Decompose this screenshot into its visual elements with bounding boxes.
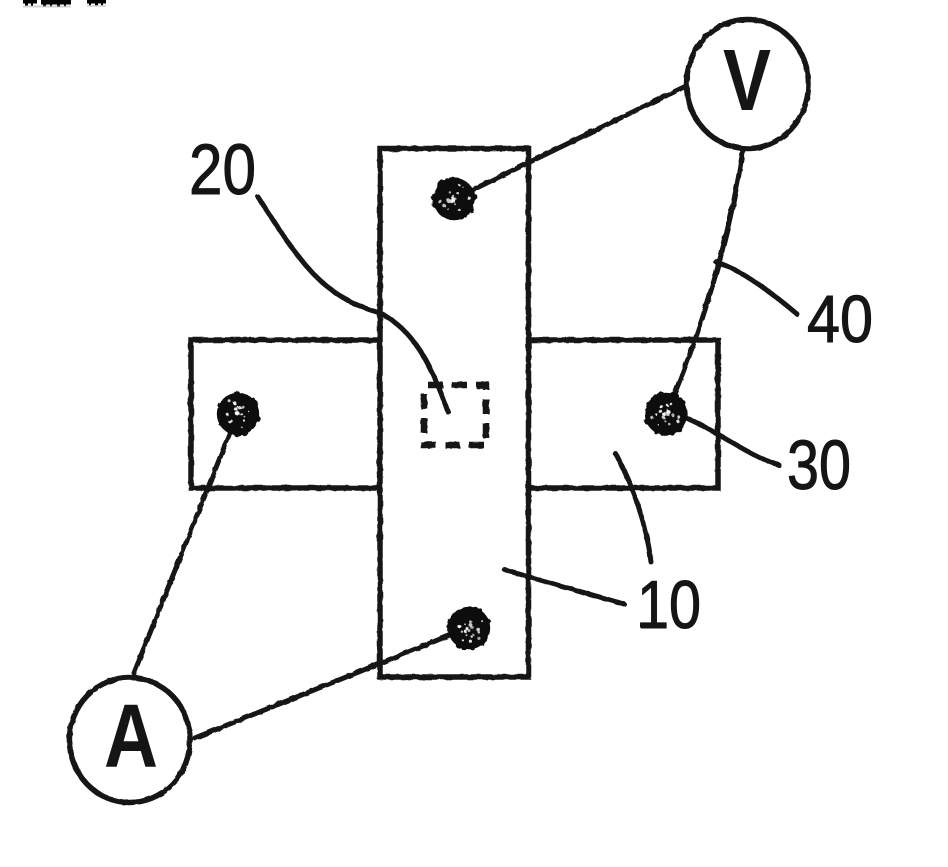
svg-text:40: 40 [807,282,873,357]
bottom contact dot [446,607,490,651]
left contact dot [217,391,261,438]
ammeter A circle [69,678,190,803]
svg-text:30: 30 [787,426,851,504]
svg-text:V: V [723,32,771,129]
top contact dot [431,178,477,220]
svg-text:10: 10 [637,567,701,643]
wire: voltmeter V to right contact 30 [667,150,743,412]
wire: ammeter A to left contact [134,420,235,673]
svg-text:A: A [104,687,158,787]
leader line for label 40 [716,262,797,314]
leader line (curved) for label 10 pointing to horizontal bar [616,454,651,562]
leader line for label 20 [258,197,448,412]
vertical substrate bar (part of 10) [380,149,529,678]
figure caption fragment (cut off at top) [23,0,106,8]
right contact dot (30) [644,391,687,436]
dashed measurement region 20 [424,385,486,445]
foot serif of digit 1 in numeral 10 [640,623,664,628]
wire: top contact to voltmeter V [458,87,684,197]
leader line (straight) for label 10 pointing to vertical bar [505,570,624,604]
horizontal substrate bar (part of 10) [191,340,718,488]
voltmeter V circle [687,20,809,149]
leader line for label 30 [684,417,779,465]
wire: ammeter A to bottom contact [195,629,465,738]
svg-text:20: 20 [189,131,256,210]
